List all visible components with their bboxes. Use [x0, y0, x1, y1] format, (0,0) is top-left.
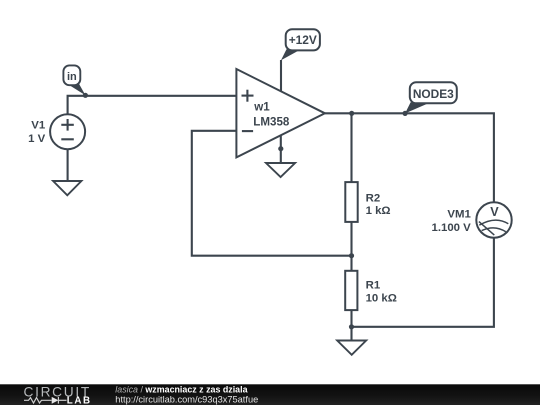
wire VM1 bottom to ground node: [352, 238, 494, 327]
wire output node down to R2: [350, 113, 352, 182]
svg-text:LM358: LM358: [253, 115, 290, 128]
svg-text:w1: w1: [253, 101, 270, 114]
label V1 value: [28, 119, 46, 145]
svg-text:+12V: +12V: [289, 33, 317, 47]
svg-text:LAB: LAB: [67, 395, 92, 405]
svg-text:V: V: [490, 205, 499, 219]
svg-text:lasica / wzmacniacz z zas dzia: lasica / wzmacniacz z zas dziala: [115, 384, 247, 394]
svg-text:1.100 V: 1.100 V: [432, 222, 472, 234]
ground for op-amp negative supply: [266, 163, 295, 177]
resistor R1: [345, 271, 397, 310]
wire op-amp V- pin to ground: [280, 135, 282, 164]
resistor R2: [345, 182, 390, 222]
power flag +12V: [281, 29, 320, 60]
wire R2 to R1: [350, 223, 352, 271]
svg-text:R1: R1: [366, 280, 381, 292]
wire +12V supply to op-amp V+ pin: [280, 60, 282, 92]
ground for R1: [337, 341, 366, 355]
node flag in: [63, 65, 88, 98]
svg-text:1 kΩ: 1 kΩ: [366, 205, 391, 217]
ground for V1: [53, 181, 81, 195]
junction op-amp V- pin: [278, 146, 283, 151]
svg-text:in: in: [67, 71, 77, 83]
svg-text:10 kΩ: 10 kΩ: [366, 293, 397, 305]
wire non-inverting input from V1 to op-amp: [68, 96, 237, 115]
wire R1 to ground node: [350, 311, 352, 341]
svg-text:R2: R2: [366, 192, 381, 204]
label VM1 value: [432, 208, 472, 234]
junction R2-R1 node: [349, 253, 354, 258]
voltage source V1: [50, 114, 85, 149]
voltmeter VM1: [476, 202, 511, 237]
node flag NODE3: [405, 82, 457, 113]
svg-text:NODE3: NODE3: [413, 87, 454, 101]
footer bar: [0, 384, 540, 405]
wire V1 bottom to ground: [67, 149, 69, 181]
svg-text:http://circuitlab.com/c93q3x75: http://circuitlab.com/c93q3x75atfue: [115, 394, 258, 404]
CircuitLab logo: [24, 384, 92, 405]
junction R1-ground node: [349, 324, 354, 329]
junction NODE3 anchor: [403, 111, 408, 116]
junction output to R2: [349, 111, 354, 116]
wire feedback: op-amp inverting input loop to R1/R2 node: [192, 131, 352, 256]
svg-text:V1: V1: [31, 119, 46, 131]
op-amp w1 LM358: [236, 69, 325, 157]
svg-text:1 V: 1 V: [28, 133, 45, 145]
svg-text:VM1: VM1: [447, 208, 471, 220]
wire op-amp output to VM1 branch: [325, 113, 494, 202]
